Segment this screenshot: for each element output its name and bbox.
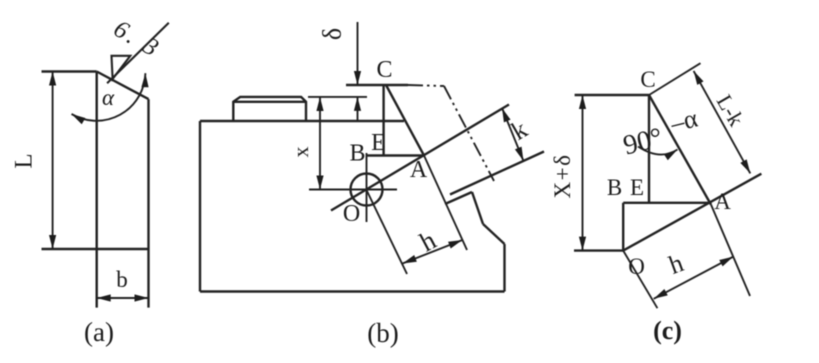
svg-text:A: A (714, 189, 731, 214)
figure (b): block bottom edge (200, 290, 505, 292)
vertical centerline through O (366, 153, 368, 222)
svg-text:(c): (c) (653, 316, 682, 345)
figure (a): plate left edge with extension (95, 72, 97, 308)
figure (a): plate bottom edge (42, 248, 149, 250)
figure (c): top horizontal line (575, 94, 649, 96)
svg-text:E: E (371, 130, 386, 156)
figure (c): extension line from C for L-k (649, 63, 701, 95)
figure (c): horizontal line B-E-A (623, 202, 710, 204)
surface finish symbol 6.3 triangle (112, 56, 131, 79)
svg-text:L-k: L-k (712, 90, 750, 130)
svg-text:O: O (628, 254, 645, 279)
svg-text:O: O (343, 201, 360, 227)
pin circle at O (351, 174, 383, 206)
gauge block boss outline (233, 97, 306, 121)
figure (b): block right chamfer (483, 224, 505, 244)
dimension L line (52, 72, 54, 250)
svg-text:B: B (607, 175, 622, 200)
svg-text:E: E (630, 175, 644, 200)
extension line of boss top (308, 96, 367, 98)
figure (b): step horizontal (445, 192, 472, 204)
gauge block boss inner line (233, 101, 306, 103)
horizontal line B to A (367, 154, 425, 156)
figure (b): block left edge (199, 121, 201, 292)
figure (c): bottom horizontal line (574, 249, 623, 251)
figure (a): chamfer edge at angle alpha (97, 72, 149, 100)
dimension h line (403, 240, 463, 264)
svg-text:L: L (11, 153, 38, 168)
svg-text:C: C (640, 67, 655, 92)
figure (b): step vertical (472, 192, 483, 224)
figure (c): angle 90-alpha arc arrow (638, 147, 678, 155)
figure (a): plate right edge with extension (147, 99, 149, 308)
svg-text:h: h (665, 248, 687, 280)
figure (c): vertical line C-E (648, 95, 650, 203)
angle alpha arc with arrows (72, 73, 146, 121)
figure (c): dimension h line (654, 257, 734, 299)
figure (c): extension below O (623, 251, 657, 309)
figure (c): extension below A (711, 205, 750, 296)
svg-text:B: B (349, 141, 365, 167)
extension line below A (424, 156, 467, 251)
svg-text:A: A (410, 157, 428, 183)
line through C (top reference) (346, 84, 408, 86)
line through O and A extended (331, 105, 509, 211)
phantom dash-dot inclined centerline (444, 86, 494, 181)
svg-text:α: α (102, 85, 115, 110)
extension line below O (367, 190, 408, 274)
figure (a): plate top edge (42, 70, 97, 72)
svg-text:h: h (415, 224, 441, 257)
vertical line E (from C line down) (382, 85, 384, 156)
dimension delta upper arrow (357, 22, 359, 85)
surface finish symbol long tail (107, 23, 169, 84)
figure (c): dimension L-k line (694, 71, 751, 173)
figure (c): dimension X+delta line (582, 95, 584, 251)
svg-text:(b): (b) (367, 318, 398, 348)
dimension x line (319, 97, 321, 190)
dimension k line (502, 108, 524, 161)
dimension b line (97, 297, 149, 299)
figure (b): block top edge (200, 120, 404, 122)
horizontal centerline through O (309, 189, 397, 191)
phantom dash-dot horizontal from C (408, 85, 444, 86)
svg-text:X+δ: X+δ (550, 154, 575, 199)
svg-text:δ: δ (318, 28, 347, 40)
figure (c): line O-A extended (623, 174, 761, 251)
figure (c): vertical leg below B (622, 203, 624, 251)
svg-text:(a): (a) (84, 317, 114, 347)
figure (b): inclined face line (450, 152, 544, 195)
svg-text:b: b (116, 267, 128, 292)
svg-text:x: x (288, 147, 313, 158)
bar edge C to A (386, 85, 424, 156)
figure (c): line C-A extended (649, 95, 711, 205)
dimension delta lower arrow (357, 97, 359, 122)
svg-text:90°: 90° (620, 122, 666, 162)
svg-text:C: C (376, 57, 392, 83)
figure (b): block right edge (503, 244, 505, 292)
